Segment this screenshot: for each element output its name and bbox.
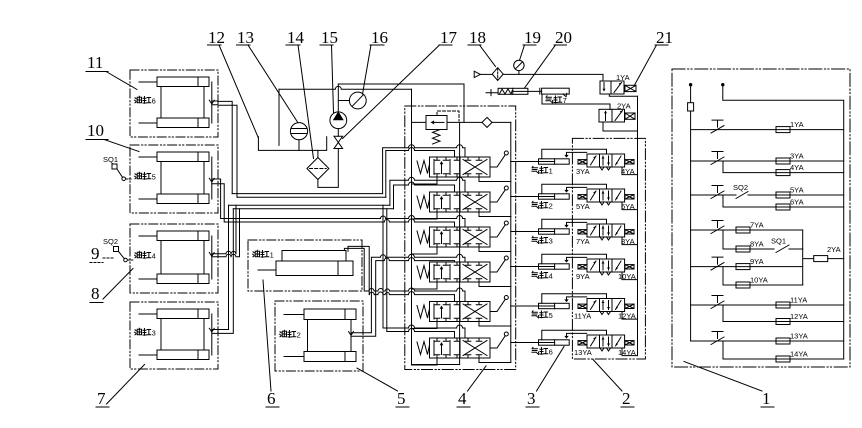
air bus right bbox=[637, 96, 639, 355]
rung pair 11YA 12YA bbox=[691, 296, 844, 325]
left supply bus bbox=[689, 84, 691, 342]
channel C2 bbox=[229, 205, 394, 209]
svg-text:14: 14 bbox=[287, 28, 305, 47]
electrical panel box (1) bbox=[672, 69, 850, 367]
svg-text:1YA: 1YA bbox=[790, 120, 804, 129]
air cylinder row 3 (QG3) bbox=[511, 219, 638, 244]
number 10 bbox=[86, 121, 139, 152]
number 6 bbox=[263, 280, 279, 408]
tank return pipe bbox=[278, 89, 280, 145]
rung pair 13YA 14YA bbox=[691, 332, 844, 363]
number 3 bbox=[526, 347, 564, 409]
manifold bottom link bbox=[412, 364, 460, 366]
svg-text:3: 3 bbox=[527, 389, 536, 408]
collector and coil 2YA bbox=[803, 230, 844, 285]
svg-text:14YA: 14YA bbox=[618, 348, 636, 357]
svg-text:4: 4 bbox=[458, 389, 467, 408]
solenoid labels 11YA 12YA bbox=[574, 312, 636, 321]
svg-text:3: 3 bbox=[549, 237, 553, 246]
number 1 bbox=[684, 362, 774, 409]
svg-text:6YA: 6YA bbox=[621, 202, 635, 211]
air gauge 19 bbox=[514, 60, 524, 74]
rung pair 7YA 8YA with SQ1 bbox=[691, 221, 803, 253]
number 4 bbox=[457, 366, 486, 408]
T bus line bbox=[411, 89, 413, 364]
rung pair 5YA 6YA with SQ2 bbox=[691, 183, 844, 210]
relief/check line bbox=[412, 121, 511, 123]
QG7 to 2YA line bbox=[542, 94, 610, 109]
svg-text:7: 7 bbox=[97, 389, 106, 408]
tank return pipe with hop bbox=[279, 86, 412, 89]
air cylinder row 6 (QG6) bbox=[511, 330, 638, 355]
svg-text:10YA: 10YA bbox=[750, 276, 768, 285]
pilot valve 2YA bbox=[599, 101, 635, 122]
svg-text:10: 10 bbox=[87, 121, 104, 140]
channel C1 bbox=[232, 194, 386, 198]
svg-text:11YA: 11YA bbox=[574, 312, 591, 321]
label YG4 bbox=[135, 251, 156, 260]
shutoff valve 17 bbox=[334, 129, 343, 149]
svg-text:12YA: 12YA bbox=[618, 312, 636, 321]
air cylinder row 4 (QG4) bbox=[511, 254, 638, 279]
label YG6 bbox=[135, 96, 156, 105]
number 9 bbox=[90, 244, 113, 263]
svg-text:3YA: 3YA bbox=[790, 152, 804, 161]
svg-text:4YA: 4YA bbox=[790, 163, 804, 172]
svg-text:SQ1: SQ1 bbox=[771, 236, 786, 245]
pipes YG2 to valve row 4 bbox=[351, 254, 465, 336]
label QG2 bbox=[532, 201, 553, 210]
air line to 1YA valve bbox=[503, 74, 603, 81]
air source triangle bbox=[474, 71, 480, 77]
svg-text:5: 5 bbox=[397, 389, 406, 408]
svg-text:1YA: 1YA bbox=[616, 73, 630, 82]
air cylinder row 1 (QG1) bbox=[511, 149, 638, 174]
svg-text:19: 19 bbox=[524, 28, 541, 47]
svg-text:SQ1: SQ1 bbox=[103, 155, 118, 164]
label QG1 bbox=[532, 166, 553, 175]
label QG6 bbox=[532, 347, 553, 356]
air cylinder row 2 (QG2) bbox=[511, 184, 638, 209]
pump 15 bbox=[330, 84, 347, 129]
solenoid labels 3YA 4YA bbox=[576, 167, 635, 176]
risers C2 to valve row 2 bbox=[390, 177, 465, 209]
svg-text:12: 12 bbox=[208, 28, 225, 47]
svg-text:3: 3 bbox=[152, 329, 156, 338]
solenoid labels 9YA 10YA bbox=[576, 272, 636, 281]
svg-text:1: 1 bbox=[270, 251, 274, 260]
number 19 bbox=[520, 28, 542, 60]
svg-text:3YA: 3YA bbox=[576, 167, 590, 176]
svg-text:11: 11 bbox=[87, 53, 103, 72]
svg-text:7YA: 7YA bbox=[750, 221, 764, 230]
svg-text:6: 6 bbox=[267, 389, 276, 408]
number 5 bbox=[357, 368, 409, 408]
pipes YG5 down to valve row 3 feeds bbox=[218, 179, 465, 227]
directional valve row 1 bbox=[412, 151, 511, 184]
number 11 bbox=[86, 53, 137, 90]
solenoid labels 13YA 14YA bbox=[574, 348, 636, 357]
svg-text:8YA: 8YA bbox=[621, 237, 635, 246]
svg-text:5: 5 bbox=[152, 173, 156, 182]
number 16 bbox=[363, 28, 389, 94]
number 14 bbox=[286, 28, 314, 159]
number 20 bbox=[525, 28, 573, 88]
oil cylinder box A (YG6) bbox=[130, 70, 218, 137]
svg-text:13YA: 13YA bbox=[790, 332, 808, 341]
svg-text:16: 16 bbox=[371, 28, 388, 47]
number 12 bbox=[208, 28, 259, 138]
svg-text:10YA: 10YA bbox=[618, 272, 636, 281]
long risers to valve row 6 bbox=[383, 205, 465, 338]
right feed bus bbox=[722, 84, 844, 360]
number 8 bbox=[90, 269, 133, 304]
oil cylinder box YG2 bbox=[275, 301, 363, 371]
relief valve bbox=[426, 111, 459, 144]
svg-text:9YA: 9YA bbox=[750, 257, 764, 266]
svg-text:13: 13 bbox=[237, 28, 254, 47]
oil tank bbox=[258, 137, 326, 151]
svg-text:15: 15 bbox=[321, 28, 338, 47]
svg-text:1: 1 bbox=[549, 167, 553, 176]
rung pair 3YA 4YA bbox=[691, 152, 844, 176]
P supply right line bbox=[510, 122, 512, 362]
svg-text:2: 2 bbox=[549, 202, 553, 211]
solenoid group dash-dot box (2) bbox=[572, 138, 645, 359]
svg-text:9: 9 bbox=[91, 244, 100, 263]
svg-text:9YA: 9YA bbox=[576, 272, 590, 281]
air line to filter bbox=[480, 73, 492, 75]
air filter 18 bbox=[492, 68, 503, 81]
directional valve row 6 bbox=[412, 332, 511, 365]
directional valve row 4 bbox=[412, 256, 511, 289]
svg-text:SQ2: SQ2 bbox=[103, 237, 118, 246]
svg-text:4YA: 4YA bbox=[621, 167, 635, 176]
oil cylinder box YG1 bbox=[248, 240, 362, 291]
pipes YG6 down to channel C1 bbox=[218, 101, 237, 197]
svg-text:5YA: 5YA bbox=[790, 186, 804, 195]
svg-text:8YA: 8YA bbox=[750, 240, 764, 249]
2YA valve outlet bbox=[603, 122, 638, 131]
svg-text:5: 5 bbox=[549, 311, 553, 320]
svg-text:2YA: 2YA bbox=[827, 245, 841, 254]
rung pair 9YA 10YA bbox=[691, 257, 803, 288]
number 17 bbox=[343, 28, 458, 139]
svg-text:2: 2 bbox=[297, 331, 301, 340]
oil cylinder box D (YG3) bbox=[130, 302, 218, 369]
P bus line bbox=[459, 122, 461, 364]
number 18 bbox=[468, 28, 496, 67]
label YG1 bbox=[253, 250, 274, 259]
solenoid labels 5YA 6YA bbox=[576, 202, 635, 211]
svg-text:6YA: 6YA bbox=[790, 198, 804, 207]
svg-text:6: 6 bbox=[549, 348, 553, 357]
risers C1 to valve row 1 bbox=[383, 145, 465, 198]
svg-text:2: 2 bbox=[622, 389, 631, 408]
number 13 bbox=[237, 28, 299, 123]
pump discharge pipe bbox=[338, 84, 464, 122]
manifold dash-dot box (4) bbox=[405, 106, 516, 370]
label QG3 bbox=[532, 236, 553, 245]
directional valve row 2 bbox=[412, 186, 511, 219]
label YG5 bbox=[135, 172, 156, 181]
svg-text:1: 1 bbox=[762, 389, 771, 408]
svg-text:6: 6 bbox=[152, 97, 156, 106]
breather 13 bbox=[290, 123, 307, 151]
svg-text:17: 17 bbox=[440, 28, 458, 47]
limit switch SQ1 bbox=[103, 155, 131, 181]
1YA valve outlet bbox=[609, 94, 637, 96]
number 2 bbox=[593, 360, 634, 409]
svg-text:13YA: 13YA bbox=[574, 348, 592, 357]
svg-text:8: 8 bbox=[91, 284, 100, 303]
svg-text:5YA: 5YA bbox=[576, 202, 590, 211]
pipes YG4 up to channel C2 bbox=[218, 205, 240, 257]
svg-text:20: 20 bbox=[555, 28, 572, 47]
pilot valve 1YA bbox=[600, 73, 636, 94]
svg-text:4: 4 bbox=[152, 252, 156, 261]
solenoid labels 7YA 8YA bbox=[576, 237, 635, 246]
pipes YG1 to valve row 5 bbox=[344, 246, 465, 301]
svg-text:4: 4 bbox=[549, 272, 553, 281]
pipes YG3 up to channel C2 bbox=[218, 205, 233, 333]
limit switch SQ2 bbox=[103, 237, 133, 262]
number 21 bbox=[634, 28, 673, 86]
svg-text:21: 21 bbox=[656, 28, 673, 47]
label YG3 bbox=[135, 328, 156, 337]
label QG5 bbox=[532, 311, 553, 320]
number 7 bbox=[96, 365, 145, 409]
fuse bbox=[688, 103, 694, 111]
svg-text:14YA: 14YA bbox=[790, 350, 808, 359]
svg-text:12YA: 12YA bbox=[790, 312, 808, 321]
check valve bbox=[482, 117, 492, 127]
oil cylinder box B (YG5) bbox=[130, 145, 218, 213]
svg-text:11YA: 11YA bbox=[790, 296, 807, 305]
svg-text:7YA: 7YA bbox=[576, 237, 590, 246]
pressure gauge 16 bbox=[338, 92, 366, 109]
label QG4 bbox=[532, 271, 553, 280]
air cylinder row 5 (QG5) bbox=[511, 294, 638, 319]
spring return air cylinder QG7 bbox=[486, 88, 569, 97]
oil cylinder box C (YG4) bbox=[130, 224, 218, 293]
label YG2 bbox=[280, 330, 301, 339]
svg-text:18: 18 bbox=[469, 28, 486, 47]
suction filter 14 bbox=[307, 149, 338, 188]
label QG7 bbox=[546, 96, 567, 105]
number 15 bbox=[320, 28, 338, 113]
svg-text:SQ2: SQ2 bbox=[733, 183, 748, 192]
directional valve row 3 bbox=[412, 221, 511, 254]
directional valve row 5 bbox=[412, 296, 511, 329]
svg-text:2YA: 2YA bbox=[617, 101, 631, 110]
rung 1YA bbox=[691, 120, 844, 133]
